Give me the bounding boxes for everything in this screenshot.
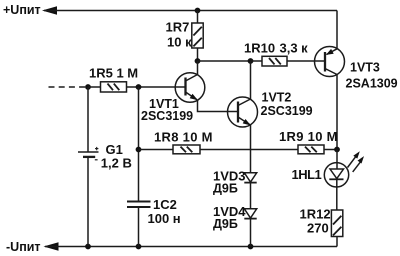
svg-text:1,2 В: 1,2 В bbox=[101, 156, 132, 171]
svg-text:1R5 1 М: 1R5 1 М bbox=[89, 66, 138, 81]
LED arrows bbox=[348, 155, 357, 167]
resistor R10 bbox=[262, 56, 287, 66]
svg-text:1R9 10 М: 1R9 10 М bbox=[279, 129, 338, 144]
node bottom VD4 bbox=[248, 244, 254, 250]
arrow -Upit bbox=[44, 242, 59, 251]
resistor R5 bbox=[101, 82, 127, 92]
battery G1 bbox=[78, 151, 99, 153]
svg-text:2SA1309: 2SA1309 bbox=[346, 76, 398, 90]
wire VT3 collector down bbox=[336, 75, 338, 150]
wire VT2 emitter down bbox=[250, 125, 252, 173]
transistor VT3 bbox=[315, 47, 345, 77]
wire R5 right to VT1 base bbox=[127, 86, 186, 88]
svg-text:1VT2: 1VT2 bbox=[262, 91, 292, 105]
wire VT1 emitter to VT2 base bbox=[198, 100, 239, 112]
svg-text:1R10: 1R10 bbox=[244, 41, 275, 56]
wire R8 right to R9 bbox=[200, 149, 298, 151]
wire right column top bbox=[336, 11, 338, 49]
transistor VT1 bbox=[175, 73, 205, 103]
diode VD4 bbox=[244, 209, 256, 218]
wire top rail bbox=[44, 10, 337, 12]
node R10 left bbox=[248, 58, 254, 64]
wire R7 top bbox=[197, 11, 199, 24]
wire R12 bottom bbox=[336, 237, 338, 247]
wire R9 right bbox=[324, 149, 337, 151]
resistor R8 bbox=[173, 145, 200, 154]
wire bottom rail bbox=[45, 246, 337, 248]
wire VD3-VD4 bbox=[250, 183, 252, 209]
node top rail / R7 bbox=[195, 8, 201, 14]
wire HL1 top bbox=[336, 150, 338, 170]
capacitor C2 bbox=[127, 201, 151, 203]
diode VD3 bbox=[244, 173, 256, 182]
arrow +Upit bbox=[42, 6, 57, 15]
svg-text:3,3 к: 3,3 к bbox=[280, 41, 309, 56]
svg-text:1HL1: 1HL1 bbox=[292, 167, 322, 182]
G1 plus mark bbox=[95, 148, 98, 150]
svg-text:1VT3: 1VT3 bbox=[350, 60, 380, 74]
LED HL1 bbox=[324, 163, 348, 187]
resistor R7 bbox=[192, 23, 203, 48]
wire R8 left bbox=[139, 149, 174, 151]
node bottom C2 bbox=[136, 244, 142, 250]
svg-text:+Uпит: +Uпит bbox=[3, 3, 41, 17]
wire dashed input bbox=[49, 86, 87, 88]
wire R10 left bbox=[251, 60, 263, 62]
wire R5 left bbox=[88, 86, 101, 88]
node bottom G1 bbox=[85, 244, 91, 250]
svg-text:1R7: 1R7 bbox=[166, 20, 190, 35]
svg-text:2SC3199: 2SC3199 bbox=[261, 104, 313, 118]
wire HL1 bottom bbox=[336, 179, 338, 210]
node R5/C2 bbox=[136, 84, 142, 90]
svg-text:10 к: 10 к bbox=[167, 34, 192, 49]
resistor R9 bbox=[298, 145, 324, 154]
svg-text:Д9Б: Д9Б bbox=[213, 182, 238, 196]
svg-text:100 н: 100 н bbox=[148, 211, 181, 226]
G1 minus mark bbox=[95, 159, 98, 161]
svg-text:270: 270 bbox=[307, 221, 329, 236]
node R8 branch bbox=[136, 147, 142, 153]
node R9/HL1 bbox=[334, 147, 340, 153]
wire G1 top bbox=[87, 87, 89, 152]
svg-text:Д9Б: Д9Б bbox=[213, 217, 238, 231]
svg-text:2SC3199: 2SC3199 bbox=[141, 109, 193, 123]
svg-text:1C2: 1C2 bbox=[153, 197, 177, 212]
svg-text:1R8 10 М: 1R8 10 М bbox=[154, 130, 213, 145]
node R5 left bbox=[85, 84, 91, 90]
svg-text:-Uпит: -Uпит bbox=[6, 240, 41, 254]
wire R10 right to VT3 base bbox=[287, 60, 325, 62]
node VT1 collector bbox=[195, 58, 201, 64]
wire VD4 bottom bbox=[250, 219, 252, 247]
wire collector row bbox=[198, 60, 251, 62]
wire C2 column bbox=[138, 87, 140, 202]
svg-text:1R12: 1R12 bbox=[300, 207, 331, 222]
wire C2 bottom bbox=[138, 207, 140, 247]
wire R7 bottom bbox=[197, 48, 199, 61]
resistor R12 bbox=[331, 210, 342, 237]
wire G1 bottom bbox=[87, 157, 89, 247]
transistor VT2 bbox=[228, 97, 258, 127]
wire VT2 collector bbox=[250, 61, 252, 99]
